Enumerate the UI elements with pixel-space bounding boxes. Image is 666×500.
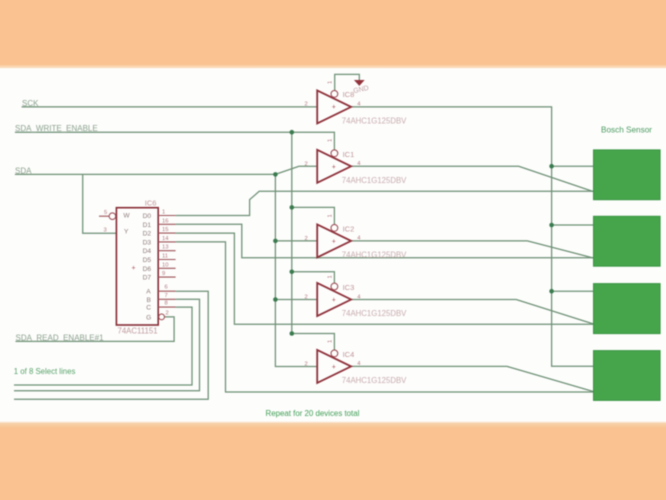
svg-text:G: G — [146, 314, 151, 321]
svg-text:13: 13 — [162, 245, 168, 251]
svg-text:B: B — [147, 297, 152, 304]
svg-text:2: 2 — [305, 102, 308, 108]
svg-text:16: 16 — [162, 218, 168, 224]
svg-text:+: + — [131, 265, 135, 272]
svg-text:Y: Y — [124, 228, 129, 235]
svg-text:1: 1 — [328, 81, 334, 84]
svg-text:D6: D6 — [143, 266, 152, 273]
svg-text:+: + — [332, 238, 336, 245]
svg-text:74AC11151: 74AC11151 — [118, 326, 158, 335]
svg-text:+: + — [332, 164, 336, 171]
svg-text:10: 10 — [162, 262, 168, 268]
svg-text:A: A — [146, 289, 151, 296]
svg-text:5: 5 — [104, 210, 107, 216]
svg-text:8: 8 — [165, 301, 168, 307]
svg-text:2: 2 — [305, 361, 308, 367]
svg-text:SDA: SDA — [15, 166, 32, 175]
svg-text:74AHC1G125DBV: 74AHC1G125DBV — [342, 176, 407, 185]
svg-text:14: 14 — [162, 236, 169, 242]
svg-text:IC3: IC3 — [343, 283, 355, 292]
svg-text:D7: D7 — [143, 275, 152, 282]
svg-text:1: 1 — [162, 210, 165, 216]
svg-text:SDA_READ_ENABLE#1: SDA_READ_ENABLE#1 — [16, 333, 105, 342]
svg-text:D2: D2 — [143, 231, 152, 238]
svg-text:IC2: IC2 — [343, 224, 355, 233]
svg-text:6: 6 — [165, 285, 168, 291]
svg-text:D3: D3 — [143, 239, 152, 246]
svg-text:74AHC1G125DBV: 74AHC1G125DBV — [342, 251, 407, 260]
svg-text:1: 1 — [328, 340, 334, 343]
svg-text:Repeat for 20 devices total: Repeat for 20 devices total — [266, 409, 360, 418]
svg-text:SDA_WRITE_ENABLE: SDA_WRITE_ENABLE — [15, 124, 98, 133]
svg-text:2: 2 — [166, 310, 169, 316]
svg-text:+: + — [332, 297, 336, 304]
svg-text:IC1: IC1 — [343, 150, 355, 159]
svg-text:Bosch Sensor: Bosch Sensor — [601, 125, 652, 134]
svg-text:2: 2 — [305, 295, 308, 301]
svg-text:74AHC1G125DBV: 74AHC1G125DBV — [342, 116, 407, 125]
svg-text:9: 9 — [162, 271, 165, 277]
svg-text:15: 15 — [162, 227, 168, 233]
svg-text:D5: D5 — [143, 257, 152, 264]
svg-text:D1: D1 — [143, 222, 152, 229]
svg-text:1 of 8 Select lines: 1 of 8 Select lines — [14, 367, 76, 376]
svg-text:74AHC1G125DBV: 74AHC1G125DBV — [342, 376, 407, 385]
svg-text:D4: D4 — [143, 248, 152, 255]
svg-text:1: 1 — [328, 139, 334, 142]
svg-text:IC4: IC4 — [343, 350, 355, 359]
svg-text:1: 1 — [328, 214, 334, 217]
svg-text:+: + — [332, 104, 336, 111]
svg-text:3: 3 — [104, 227, 107, 233]
svg-text:7: 7 — [165, 293, 168, 299]
svg-text:+: + — [332, 364, 336, 371]
svg-text:SCK: SCK — [22, 99, 39, 108]
svg-text:D0: D0 — [143, 213, 152, 220]
svg-text:11: 11 — [162, 254, 168, 260]
svg-text:W: W — [123, 213, 130, 220]
svg-text:74AHC1G125DBV: 74AHC1G125DBV — [342, 309, 407, 318]
svg-text:2: 2 — [305, 236, 308, 242]
svg-text:IC6: IC6 — [145, 198, 157, 207]
svg-text:2: 2 — [305, 161, 308, 167]
svg-text:1: 1 — [328, 275, 334, 278]
svg-text:C: C — [146, 305, 151, 312]
